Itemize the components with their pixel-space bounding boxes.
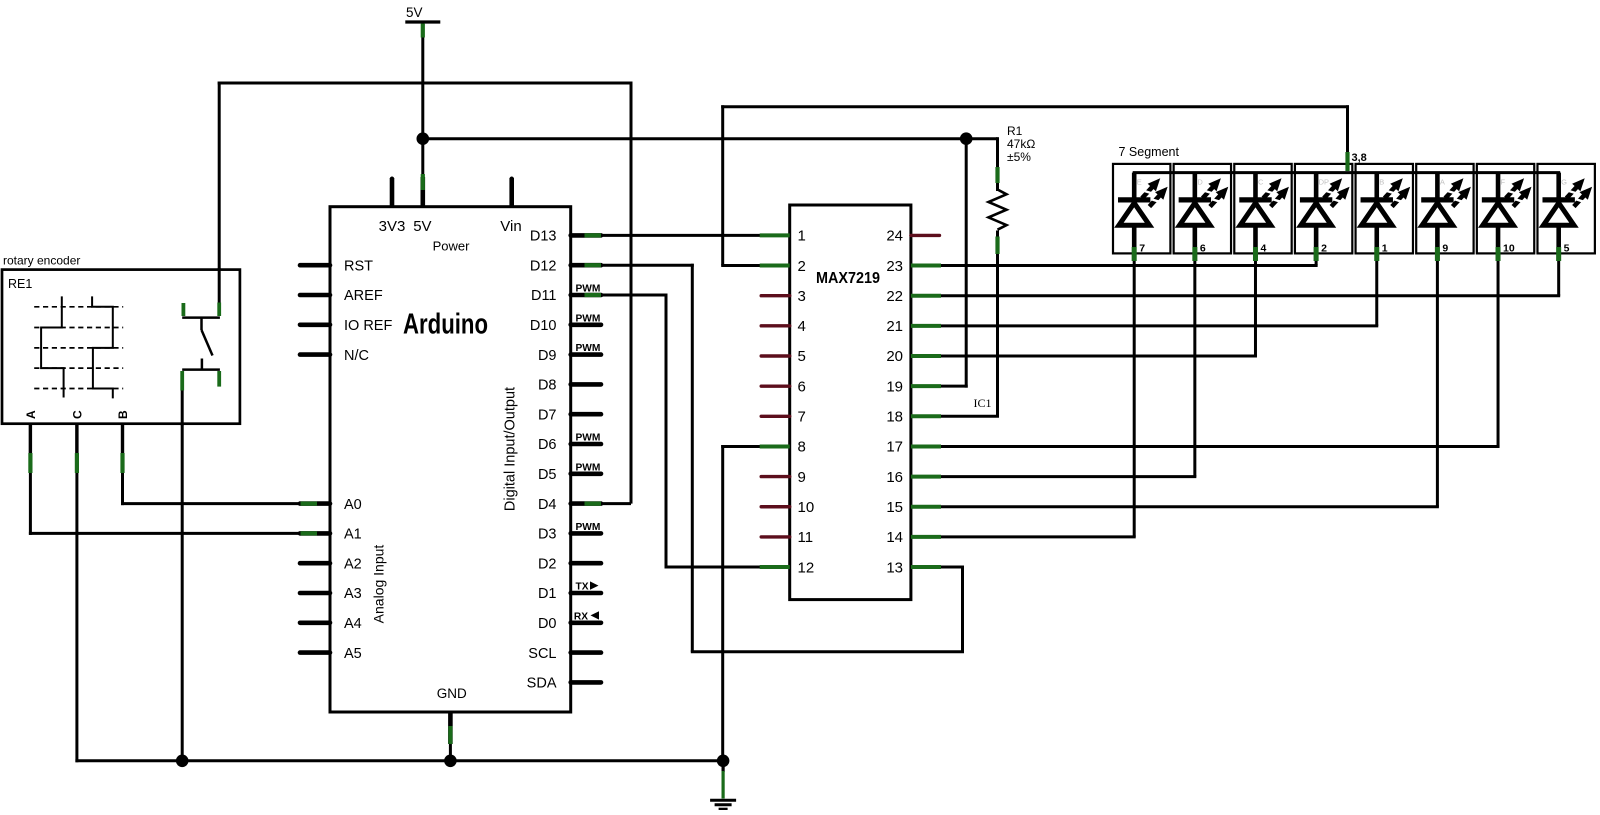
svg-text:D0: D0 bbox=[538, 616, 557, 632]
MAX7219 pin 22 bbox=[886, 288, 941, 305]
Arduino pin D10 bbox=[530, 313, 601, 334]
wire D4 to top rail (vertical) bbox=[630, 82, 633, 504]
wire R1 junction to MAX pin19 (vertical) bbox=[965, 139, 968, 388]
svg-text:A0: A0 bbox=[344, 497, 362, 513]
Arduino pin AREF bbox=[300, 288, 383, 304]
svg-text:Arduino: Arduino bbox=[403, 309, 488, 341]
LED cell pin 6 bbox=[1174, 164, 1233, 261]
Arduino pin A0 bbox=[300, 497, 362, 513]
svg-text:D: D bbox=[1197, 178, 1203, 187]
svg-text:Power: Power bbox=[433, 239, 471, 254]
junction ground symbol node bbox=[717, 755, 730, 768]
LED cell pin 4 bbox=[1234, 164, 1293, 261]
Arduino pin A5 bbox=[300, 646, 362, 662]
wire R1 top lead (vertical) bbox=[996, 137, 999, 191]
svg-text:7 Segment: 7 Segment bbox=[1119, 145, 1180, 159]
Arduino pin D13 bbox=[530, 229, 601, 245]
svg-text:2: 2 bbox=[798, 258, 806, 275]
svg-text:6: 6 bbox=[798, 378, 806, 395]
MAX7219 pin 11 bbox=[761, 529, 813, 546]
svg-text:PWM: PWM bbox=[576, 343, 601, 354]
Arduino pin D3 bbox=[538, 522, 601, 543]
wire encoder C to ground bus (vertical) bbox=[75, 424, 78, 762]
MAX7219 pin 1 bbox=[760, 228, 806, 245]
svg-text:D2: D2 bbox=[538, 556, 557, 572]
wire MAX pin16 to display pin 6 (horizontal) bbox=[911, 475, 1196, 478]
MAX7219 pin 24 bbox=[886, 228, 939, 245]
Arduino pin Vin bbox=[500, 177, 521, 236]
svg-text:D3: D3 bbox=[538, 527, 557, 543]
svg-text:18: 18 bbox=[886, 409, 903, 426]
Arduino pin D2 bbox=[538, 556, 601, 572]
svg-text:5: 5 bbox=[1564, 243, 1570, 255]
Arduino pin 5V bbox=[413, 174, 431, 235]
MAX7219 pin 17 bbox=[886, 439, 941, 456]
Arduino pin D9 bbox=[538, 343, 601, 364]
MAX7219 pin 13 bbox=[886, 559, 941, 576]
svg-text:PWM: PWM bbox=[576, 522, 601, 533]
svg-text:PWM: PWM bbox=[576, 313, 601, 324]
wire encoder A to Arduino A1 (vertical) bbox=[29, 424, 32, 535]
wire MAX pin2 (horizontal) bbox=[721, 264, 790, 267]
junction Arduino GND node bbox=[444, 755, 457, 768]
svg-text:D13: D13 bbox=[530, 229, 557, 245]
wire display pin 9 drop (vertical) bbox=[1436, 226, 1439, 507]
svg-text:5V: 5V bbox=[406, 5, 423, 20]
LED cell pin 10 bbox=[1477, 164, 1536, 261]
Arduino pin D8 bbox=[538, 378, 601, 394]
svg-text:20: 20 bbox=[886, 348, 903, 365]
svg-text:10: 10 bbox=[798, 499, 815, 516]
junction R1 / pin19 node bbox=[960, 132, 973, 145]
svg-text:17: 17 bbox=[886, 439, 903, 456]
MAX7219 pin 8 bbox=[760, 439, 806, 456]
Arduino pin GND bbox=[448, 712, 453, 744]
svg-text:B: B bbox=[1379, 178, 1384, 187]
wire MAX pin8 to ground (horizontal) bbox=[721, 445, 790, 448]
wire D11 to MAX pin12 (vertical) bbox=[665, 294, 668, 569]
svg-text:C: C bbox=[1258, 178, 1264, 187]
wire display pin 7 drop (vertical) bbox=[1133, 226, 1136, 537]
resistor R1 47k bbox=[989, 124, 1036, 254]
svg-text:3,8: 3,8 bbox=[1352, 152, 1367, 164]
svg-text:A: A bbox=[1440, 178, 1445, 187]
svg-text:D12: D12 bbox=[530, 258, 557, 274]
wire pin13 drop (vertical) bbox=[961, 566, 964, 652]
Arduino board box bbox=[330, 207, 571, 712]
svg-text:A1: A1 bbox=[344, 527, 362, 543]
svg-text:GND: GND bbox=[437, 686, 467, 701]
MAX7219 pin 10 bbox=[761, 499, 814, 516]
wire display pin 4 drop (vertical) bbox=[1254, 226, 1257, 357]
encoder pin A bbox=[24, 410, 38, 473]
Arduino pin D0 bbox=[538, 611, 601, 632]
wire rotary switch top lead (vertical) bbox=[218, 82, 221, 303]
svg-text:4: 4 bbox=[1260, 243, 1266, 255]
wire MAX pin20 to display pin 4 (horizontal) bbox=[911, 355, 1257, 358]
svg-text:14: 14 bbox=[886, 529, 903, 546]
encoder pin B bbox=[116, 410, 130, 473]
Arduino pin RST bbox=[300, 258, 373, 274]
wire 5V node to R1 (horizontal) bbox=[423, 137, 998, 140]
LED cell pin 1 bbox=[1356, 164, 1415, 261]
wire ground bus (horizontal) bbox=[75, 759, 723, 762]
wire D12 stub (horizontal) bbox=[571, 264, 694, 267]
wire display pin 1 drop (vertical) bbox=[1375, 226, 1378, 326]
wire 3,8 drop to segment cathode bus (vertical) bbox=[1346, 105, 1349, 172]
svg-text:1: 1 bbox=[798, 228, 806, 245]
svg-text:RST: RST bbox=[344, 258, 373, 274]
svg-text:22: 22 bbox=[886, 288, 903, 305]
wire MAX pin17 to display pin 10 (horizontal) bbox=[911, 445, 1500, 448]
MAX7219 pin 2 bbox=[760, 258, 806, 275]
svg-text:10: 10 bbox=[1503, 243, 1515, 255]
svg-text:5: 5 bbox=[798, 348, 806, 365]
svg-text:R1: R1 bbox=[1007, 124, 1023, 138]
Arduino pin A2 bbox=[300, 556, 362, 572]
svg-text:11: 11 bbox=[798, 529, 814, 546]
svg-text:Vin: Vin bbox=[500, 218, 521, 235]
MAX7219 pin 15 bbox=[886, 499, 941, 516]
svg-text:D9: D9 bbox=[538, 348, 557, 364]
svg-text:D11: D11 bbox=[531, 288, 557, 304]
wire MAX pin2 to segment bus (horizontal) bbox=[721, 105, 1349, 108]
svg-text:8: 8 bbox=[798, 439, 806, 456]
svg-text:7: 7 bbox=[798, 409, 806, 426]
svg-text:3V3: 3V3 bbox=[379, 218, 406, 235]
MAX7219 pin 4 bbox=[761, 318, 806, 335]
wire display pin 6 drop (vertical) bbox=[1193, 226, 1196, 477]
Arduino pin N/C bbox=[300, 348, 369, 364]
ground symbol bbox=[710, 761, 736, 809]
svg-text:3: 3 bbox=[798, 288, 806, 305]
svg-text:21: 21 bbox=[886, 318, 903, 335]
wire D4 stub to vertical (horizontal) bbox=[571, 502, 631, 505]
Arduino pin A1 bbox=[300, 527, 362, 543]
svg-text:D10: D10 bbox=[530, 318, 557, 334]
svg-text:D4: D4 bbox=[538, 497, 557, 513]
svg-text:6: 6 bbox=[1200, 243, 1206, 255]
svg-text:E: E bbox=[1137, 178, 1142, 187]
Arduino pin D1 bbox=[538, 581, 601, 602]
svg-text:B: B bbox=[116, 410, 130, 419]
Arduino pin D4 bbox=[538, 497, 601, 513]
MAX7219 pin 23 bbox=[886, 258, 941, 275]
wire D11 stub (horizontal) bbox=[571, 294, 668, 297]
encoder quadrature dashed grid bbox=[34, 307, 123, 389]
segment cathode bus wire bbox=[1133, 171, 1560, 174]
Arduino pin D7 bbox=[538, 407, 601, 423]
wire rotary switch to ground (vertical) bbox=[181, 372, 184, 761]
Arduino pin D5 bbox=[538, 462, 601, 483]
Arduino pin D6 bbox=[538, 433, 601, 454]
wire MAX pin15 to display pin 9 (horizontal) bbox=[911, 505, 1439, 508]
svg-text:PWM: PWM bbox=[576, 433, 601, 444]
svg-text:RX: RX bbox=[574, 611, 588, 622]
svg-text:D7: D7 bbox=[538, 407, 557, 423]
svg-text:SCL: SCL bbox=[528, 646, 556, 662]
MAX7219 pin 20 bbox=[886, 348, 941, 365]
LED cell pin 9 bbox=[1416, 164, 1475, 261]
svg-text:16: 16 bbox=[886, 469, 903, 486]
svg-text:A5: A5 bbox=[344, 646, 362, 662]
svg-text:Digital Input/Output: Digital Input/Output bbox=[503, 387, 519, 511]
svg-text:AREF: AREF bbox=[344, 288, 383, 304]
5V power symbol bbox=[405, 5, 440, 38]
wire encoder A to A1 (horizontal) bbox=[29, 532, 330, 535]
svg-text:TX: TX bbox=[576, 582, 589, 593]
svg-text:rotary encoder: rotary encoder bbox=[3, 254, 80, 268]
segment bus 3,8 connection bbox=[1348, 152, 1367, 171]
svg-text:5V: 5V bbox=[413, 218, 431, 235]
svg-text:4: 4 bbox=[798, 318, 806, 335]
svg-text:SDA: SDA bbox=[527, 676, 557, 692]
Arduino pin SDA bbox=[527, 676, 601, 692]
wire display pin 2 drop (vertical) bbox=[1315, 226, 1318, 266]
wire Arduino GND pin drop (vertical) bbox=[449, 712, 452, 761]
encoder push switch bbox=[182, 268, 220, 426]
MAX7219 pin 7 bbox=[761, 409, 806, 426]
svg-text:47kΩ: 47kΩ bbox=[1007, 137, 1035, 151]
wire MAX pin18 (horizontal) bbox=[911, 415, 999, 418]
svg-text:Analog Input: Analog Input bbox=[371, 545, 387, 624]
wire display pin 5 drop (vertical) bbox=[1557, 226, 1560, 296]
encoder waveform A trace bbox=[41, 296, 64, 397]
wire MAX pin14 to display pin 7 (horizontal) bbox=[911, 535, 1136, 538]
wire D12 to pin13 loop (vertical) bbox=[691, 264, 694, 652]
junction 5V node bbox=[417, 132, 430, 145]
MAX7219 pin 14 bbox=[886, 529, 941, 546]
svg-text:12: 12 bbox=[798, 559, 815, 576]
svg-text:D8: D8 bbox=[538, 378, 557, 394]
MAX7219 pin 5 bbox=[761, 348, 806, 365]
svg-text:A3: A3 bbox=[344, 586, 362, 602]
svg-text:MAX7219: MAX7219 bbox=[816, 270, 880, 287]
svg-text:7: 7 bbox=[1139, 243, 1145, 255]
svg-text:A2: A2 bbox=[344, 556, 362, 572]
svg-text:1: 1 bbox=[1382, 243, 1388, 255]
wire MAX pin23 to display pin 2 (horizontal) bbox=[911, 264, 1318, 267]
svg-text:IC1: IC1 bbox=[974, 396, 992, 410]
LED cell pin 5 bbox=[1537, 164, 1596, 261]
wire pin13 loop bottom (horizontal) bbox=[691, 650, 964, 653]
wire D13 to MAX pin1 (horizontal) bbox=[571, 234, 790, 237]
svg-text:IO REF: IO REF bbox=[344, 318, 392, 334]
svg-text:G: G bbox=[1561, 178, 1567, 187]
wire MAX pin8 ground drop (vertical) bbox=[721, 445, 724, 762]
svg-text:F: F bbox=[1501, 178, 1506, 187]
svg-text:PWM: PWM bbox=[576, 462, 601, 473]
wire MAX pin19 (horizontal) bbox=[911, 385, 968, 388]
wire R1 bottom lead to MAX pin18 (vertical) bbox=[996, 231, 999, 417]
wire display pin 10 drop (vertical) bbox=[1497, 226, 1500, 447]
MAX7219 pin 16 bbox=[886, 469, 941, 486]
svg-text:DP: DP bbox=[1319, 178, 1329, 187]
wire 5V symbol drop (vertical) bbox=[421, 22, 424, 177]
LED cell pin 2 bbox=[1295, 164, 1354, 261]
svg-text:±5%: ±5% bbox=[1007, 150, 1031, 164]
wire MAX pin2 riser (vertical) bbox=[721, 105, 724, 265]
MAX7219 pin 3 bbox=[761, 288, 806, 305]
MAX7219 pin 12 bbox=[760, 559, 814, 576]
MAX7219 pin 18 bbox=[886, 409, 941, 426]
svg-text:19: 19 bbox=[886, 378, 903, 395]
encoder waveform B trace bbox=[92, 296, 113, 398]
Arduino pin IO REF bbox=[300, 318, 392, 334]
rotary encoder RE1 box bbox=[2, 254, 240, 424]
wire encoder B to A0 (horizontal) bbox=[121, 502, 330, 505]
svg-text:23: 23 bbox=[886, 258, 903, 275]
svg-text:9: 9 bbox=[1442, 243, 1448, 255]
Arduino pin 3V3 bbox=[379, 177, 406, 236]
svg-text:D6: D6 bbox=[538, 437, 557, 453]
Arduino pin A3 bbox=[300, 586, 362, 602]
svg-text:RE1: RE1 bbox=[8, 277, 32, 291]
svg-text:24: 24 bbox=[886, 228, 903, 245]
svg-text:A: A bbox=[24, 410, 38, 419]
svg-text:A4: A4 bbox=[344, 616, 362, 632]
svg-text:2: 2 bbox=[1321, 243, 1327, 255]
Arduino pin A4 bbox=[300, 616, 362, 632]
encoder pin C bbox=[70, 410, 84, 473]
svg-text:N/C: N/C bbox=[344, 348, 369, 364]
svg-text:13: 13 bbox=[886, 559, 903, 576]
Arduino pin SCL bbox=[528, 646, 601, 662]
MAX7219 pin 6 bbox=[761, 378, 806, 395]
MAX7219 pin 19 bbox=[886, 378, 941, 395]
svg-text:D5: D5 bbox=[538, 467, 557, 483]
svg-text:9: 9 bbox=[798, 469, 806, 486]
svg-text:C: C bbox=[70, 410, 84, 419]
wire encoder B to Arduino A0 (vertical) bbox=[121, 424, 124, 505]
junction switch-ground node bbox=[176, 755, 189, 768]
wire MAX pin12 (horizontal) bbox=[665, 566, 790, 569]
MAX7219 pin 21 bbox=[886, 318, 941, 335]
wire MAX pin13 (horizontal) bbox=[911, 566, 964, 569]
svg-text:PWM: PWM bbox=[576, 284, 601, 295]
wire MAX pin21 to display pin 1 (horizontal) bbox=[911, 324, 1378, 327]
Arduino pin D11 bbox=[531, 284, 601, 305]
svg-text:D1: D1 bbox=[538, 586, 557, 602]
LED cell pin 7 bbox=[1113, 164, 1172, 261]
svg-text:15: 15 bbox=[886, 499, 903, 516]
MAX7219 pin 9 bbox=[761, 469, 806, 486]
Arduino pin D12 bbox=[530, 258, 601, 274]
MAX7219 IC box bbox=[790, 205, 911, 600]
wire MAX pin22 to display pin 5 (horizontal) bbox=[911, 294, 1560, 297]
wire 5V rail to rotary switch (horizontal) bbox=[218, 82, 633, 85]
